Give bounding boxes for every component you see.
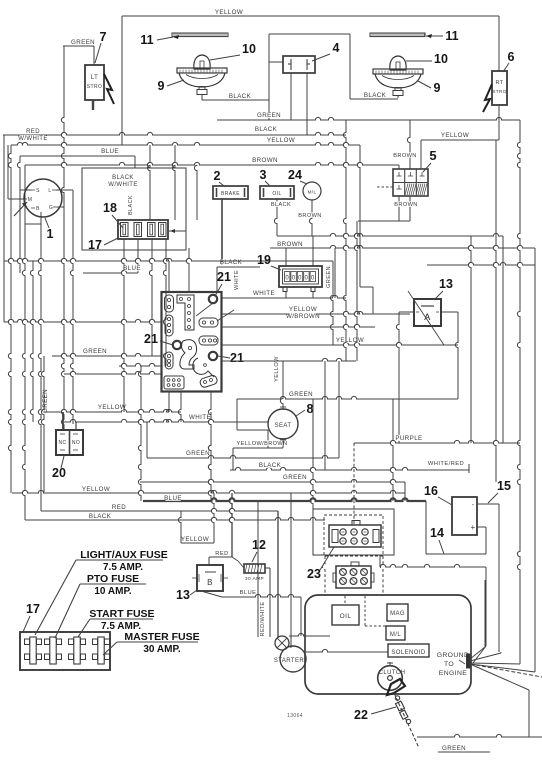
svg-text:GREEN: GREEN [442, 745, 466, 752]
wire [277, 233, 503, 443]
wire [258, 501, 266, 637]
starter solenoid [275, 636, 289, 650]
svg-text:11: 11 [445, 29, 458, 43]
wire [41, 356, 49, 492]
label pto fuse [55, 573, 146, 638]
wire black lower bus [25, 513, 325, 520]
wire [147, 145, 150, 220]
svg-text:11: 11 [140, 33, 153, 47]
svg-text:RED: RED [112, 504, 126, 511]
svg-text:0: 0 [311, 276, 315, 282]
wire brown mid [358, 220, 410, 222]
svg-text:BROWN: BROWN [394, 202, 417, 208]
wire green bottom [417, 734, 542, 752]
svg-text:OIL: OIL [340, 613, 352, 620]
label 21 top [215, 270, 231, 296]
connector 23 upper [329, 521, 381, 548]
svg-text:BROWN: BROWN [393, 153, 416, 159]
wire purple [354, 435, 520, 443]
ml lamp 24 [303, 182, 321, 200]
wire [268, 34, 270, 120]
svg-text:13: 13 [176, 588, 190, 602]
svg-text:15: 15 [497, 479, 511, 493]
wire [360, 287, 373, 314]
label 15 [488, 479, 511, 503]
wire [343, 120, 346, 361]
svg-text:GREEN: GREEN [257, 112, 281, 119]
label 4 [312, 41, 340, 61]
svg-text:30 AMP.: 30 AMP. [143, 644, 180, 655]
svg-text:BLUE: BLUE [123, 265, 141, 272]
svg-text:21: 21 [217, 270, 231, 284]
wire black mid [230, 361, 469, 470]
svg-text:YELLOW: YELLOW [441, 132, 469, 139]
wire white bus [222, 290, 346, 298]
svg-text:BLUE: BLUE [240, 590, 257, 596]
label light aux fuse [35, 549, 168, 635]
wire yellow-wbrown bus [222, 306, 410, 320]
svg-text:TO: TO [444, 661, 454, 668]
svg-text:18: 18 [103, 201, 117, 215]
svg-text:0: 0 [305, 276, 309, 282]
wire ground fan [470, 580, 542, 677]
wire [234, 270, 240, 290]
wire [233, 440, 288, 448]
svg-text:RED: RED [26, 129, 40, 135]
svg-text:YELLOW: YELLOW [336, 337, 364, 344]
svg-text:BLACK: BLACK [89, 513, 112, 520]
svg-text:3: 3 [260, 168, 267, 182]
wire [498, 16, 500, 71]
svg-text:2: 2 [214, 169, 221, 183]
wire leader diag [196, 303, 234, 321]
svg-text:STARTER: STARTER [274, 658, 305, 664]
relay 13 A [414, 299, 441, 326]
label 14 [430, 526, 444, 554]
svg-text:SOLENOID: SOLENOID [391, 650, 425, 656]
wire [220, 199, 243, 266]
wire [500, 652, 502, 653]
wire dashed lamp ground [397, 96, 399, 99]
svg-text:9: 9 [434, 81, 441, 95]
wire [394, 196, 417, 221]
svg-text:YELLOW: YELLOW [98, 404, 126, 411]
label 20 [52, 456, 66, 480]
wire green bus [217, 112, 520, 120]
label 1 [45, 218, 54, 241]
fuse block 17 [20, 632, 110, 670]
wire [201, 591, 222, 597]
svg-text:BLACK: BLACK [128, 195, 134, 215]
wire brown bus [25, 157, 399, 165]
svg-text:6: 6 [508, 50, 515, 64]
wire [222, 358, 356, 361]
svg-text:CLUTCH: CLUTCH [379, 670, 406, 676]
label 6 [503, 50, 515, 72]
wire [420, 140, 422, 169]
svg-text:YELLOW/BROWN: YELLOW/BROWN [236, 441, 287, 447]
label 16 [424, 484, 452, 505]
wire blue left [83, 265, 141, 273]
svg-text:0: 0 [298, 276, 302, 282]
svg-text:23: 23 [307, 567, 321, 581]
wire dashed stub [377, 186, 393, 188]
wire [70, 190, 73, 424]
label 13064 [287, 713, 303, 719]
wire [3, 135, 5, 322]
label 21 right [218, 351, 244, 365]
connector 23 outer [313, 509, 394, 556]
wire [25, 223, 41, 225]
wire [470, 248, 535, 737]
wire diag [408, 291, 444, 345]
label master fuse [103, 631, 200, 655]
wire white left [64, 414, 269, 422]
connector 23 lower [333, 562, 374, 588]
svg-text:GREEN: GREEN [326, 266, 332, 288]
svg-text:0: 0 [292, 276, 296, 282]
label 5 [423, 148, 437, 172]
svg-text:BLACK: BLACK [229, 93, 252, 100]
svg-text:W/WHITE: W/WHITE [18, 136, 47, 142]
wire [404, 482, 406, 501]
svg-text:GREEN: GREEN [42, 389, 49, 413]
wire yellow top bus [122, 9, 499, 16]
wire black to module [217, 267, 260, 292]
wire [390, 399, 393, 501]
wire [194, 165, 197, 220]
svg-text:YELLOW: YELLOW [82, 486, 110, 493]
strobe LT 7 [85, 65, 114, 110]
ignition switch 1 [14, 179, 62, 217]
wire [168, 229, 186, 250]
wire [265, 568, 270, 637]
svg-text:ENGINE: ENGINE [439, 670, 468, 677]
label 7 [95, 30, 107, 63]
svg-text:-: - [472, 502, 475, 509]
wire [121, 16, 123, 145]
wire [493, 140, 496, 482]
svg-text:10 AMP.: 10 AMP. [94, 586, 131, 597]
wire dashed [345, 596, 386, 626]
svg-text:BLACK: BLACK [255, 126, 278, 133]
wire green seat [237, 391, 458, 448]
svg-text:RED: RED [215, 551, 228, 557]
svg-text:B: B [36, 206, 40, 212]
wire [286, 236, 313, 266]
connector housing box [82, 168, 186, 250]
fuse 12 [244, 564, 265, 582]
wire [135, 239, 138, 273]
svg-text:BROWN: BROWN [252, 157, 278, 164]
wire [22, 165, 25, 520]
hour meter 19 [279, 266, 322, 292]
svg-text:1: 1 [47, 227, 54, 241]
wire [300, 597, 302, 636]
wire [57, 206, 64, 208]
svg-text:12: 12 [252, 538, 266, 552]
strobe RT 6 [483, 71, 507, 112]
svg-text:WHITE/RED: WHITE/RED [428, 461, 464, 467]
wire blue lower bus [143, 495, 426, 502]
wire [8, 145, 24, 199]
svg-text:SEAT: SEAT [275, 423, 292, 429]
svg-text:10: 10 [434, 52, 448, 66]
svg-text:BLACK: BLACK [220, 259, 243, 266]
wire [63, 412, 76, 430]
wire [298, 200, 321, 236]
wire [149, 239, 152, 356]
svg-text:RT: RT [495, 80, 503, 86]
wire yellow mid [222, 337, 458, 345]
wire [269, 61, 283, 63]
label 9 left [158, 79, 184, 93]
label 13 lower [176, 588, 197, 602]
wire [306, 649, 388, 652]
svg-text:16: 16 [424, 484, 438, 498]
svg-text:STRO: STRO [492, 89, 506, 94]
connector 17 18 [118, 220, 168, 239]
wire red lower bus [41, 504, 278, 638]
wire [178, 493, 214, 543]
lamp bar 11 right [370, 33, 425, 37]
svg-text:YELLOW: YELLOW [181, 536, 209, 543]
wire [289, 633, 330, 636]
label 19 [257, 253, 281, 270]
label 12 [252, 538, 266, 562]
svg-text:LIGHT/AUX FUSE: LIGHT/AUX FUSE [80, 549, 168, 561]
label 21 left [144, 332, 173, 346]
engine oil switch [332, 605, 359, 625]
svg-text:BLUE: BLUE [164, 495, 182, 502]
wire yellow right [421, 105, 499, 140]
svg-text:4: 4 [333, 41, 340, 55]
svg-text:BLUE: BLUE [101, 148, 119, 155]
svg-text:20: 20 [52, 466, 66, 480]
wire black / red-w-white bus [3, 126, 346, 142]
svg-text:BLACK: BLACK [364, 92, 387, 99]
svg-text:30 AMP: 30 AMP [245, 576, 264, 582]
wire [354, 221, 357, 361]
label 18 [103, 201, 123, 228]
wire brown lower [270, 241, 535, 248]
wire [274, 356, 283, 409]
wire long bus [4, 258, 333, 261]
label 10 left [210, 42, 256, 60]
wire dashed [322, 556, 383, 596]
svg-text:NC: NC [58, 440, 66, 446]
wire [17, 156, 20, 273]
brake switch 2 [213, 186, 248, 199]
wire left long [4, 319, 161, 322]
svg-text:7: 7 [100, 30, 107, 44]
headlight 9 left shell [0, 0, 1, 1]
svg-text:MASTER FUSE: MASTER FUSE [124, 631, 199, 643]
svg-text:YELLOW: YELLOW [215, 9, 243, 16]
svg-text:M/L: M/L [308, 190, 317, 195]
svg-text:WHITE: WHITE [253, 290, 275, 297]
control module [162, 292, 222, 392]
wire [271, 199, 291, 236]
wire [477, 504, 499, 652]
label 11 left [140, 33, 179, 47]
label 17 [88, 238, 118, 252]
svg-text:W/BROWN: W/BROWN [286, 313, 320, 320]
svg-text:+: + [470, 523, 475, 532]
wire [222, 324, 375, 327]
svg-text:PURPLE: PURPLE [395, 435, 422, 442]
svg-text:13: 13 [439, 277, 453, 291]
wire [330, 261, 333, 345]
wire [20, 189, 73, 191]
svg-text:BRAKE: BRAKE [221, 191, 240, 197]
label 8 [296, 402, 314, 416]
svg-text:BLACK: BLACK [112, 175, 134, 181]
lamp bar 11 left [172, 33, 228, 37]
wire [306, 73, 308, 135]
wire black left lamp [202, 93, 269, 100]
label 17 lower [23, 602, 40, 632]
label 24 [288, 168, 307, 184]
wire [380, 555, 486, 567]
wire [119, 363, 161, 366]
svg-text:W/WHITE: W/WHITE [108, 182, 137, 188]
svg-text:YELLOW: YELLOW [274, 356, 280, 382]
headlight 9 right shell [0, 0, 1, 1]
svg-text:YELLOW: YELLOW [267, 137, 295, 144]
svg-text:GREEN: GREEN [71, 39, 95, 46]
wire [138, 366, 141, 501]
wire [208, 412, 211, 501]
svg-text:YELLOW: YELLOW [289, 306, 317, 313]
wire [121, 239, 124, 412]
svg-text:OIL: OIL [272, 191, 281, 197]
svg-text:LT: LT [91, 75, 98, 81]
svg-text:S: S [36, 188, 40, 194]
wire [38, 212, 41, 511]
wire [393, 120, 416, 169]
svg-text:21: 21 [144, 332, 158, 346]
label 11 right [426, 29, 459, 43]
wire [398, 165, 400, 169]
svg-text:GREEN: GREEN [186, 450, 210, 457]
wire relay to right lamp [269, 34, 398, 99]
wire [396, 312, 414, 443]
key 22 [394, 693, 419, 748]
wire green to LT strobe [63, 39, 95, 65]
svg-text:WHITE: WHITE [234, 270, 240, 290]
headlight bulb 10 right [373, 56, 423, 96]
svg-text:BROWN: BROWN [298, 213, 321, 219]
wire [64, 371, 161, 374]
nc no switch 20 [56, 430, 83, 455]
wire [353, 443, 355, 525]
svg-text:BLACK: BLACK [259, 462, 282, 469]
wire [172, 145, 175, 220]
svg-text:PTO FUSE: PTO FUSE [87, 573, 139, 585]
wire [517, 120, 520, 664]
svg-text:5: 5 [429, 148, 436, 163]
wire [30, 261, 33, 422]
svg-text:9: 9 [158, 79, 165, 93]
svg-text:NO: NO [72, 440, 80, 446]
svg-text:GREEN: GREEN [289, 391, 313, 398]
oil switch 3 [260, 186, 294, 199]
svg-text:21: 21 [230, 351, 244, 365]
wire [473, 567, 486, 663]
label 3 [260, 168, 270, 186]
wire 14 loop [426, 501, 486, 554]
relay 4 [283, 56, 315, 73]
svg-text:B: B [207, 578, 213, 587]
svg-text:7.5 AMP.: 7.5 AMP. [103, 562, 143, 573]
svg-text:19: 19 [257, 253, 271, 267]
svg-text:17: 17 [88, 238, 102, 252]
svg-text:10: 10 [242, 42, 256, 56]
label 13 [434, 277, 453, 300]
wire [169, 392, 211, 494]
starter motor [274, 646, 306, 672]
svg-text:0: 0 [285, 276, 289, 282]
label 22 [354, 707, 396, 722]
wire [326, 248, 335, 298]
label 2 [214, 169, 224, 186]
wire [8, 145, 11, 493]
svg-text:L: L [48, 188, 51, 194]
svg-text:24: 24 [288, 168, 302, 182]
wire [209, 493, 232, 565]
headlight bulb 10 left [177, 55, 227, 95]
wire yellow lower bus [12, 399, 405, 648]
wire yellow bus [11, 137, 360, 287]
wire [169, 248, 189, 292]
svg-text:8: 8 [307, 402, 314, 416]
wire green left [52, 348, 161, 356]
connector 5 [393, 169, 428, 196]
wire blue bus [20, 148, 135, 168]
wire [232, 557, 244, 568]
label 10 right [406, 52, 448, 66]
engine solenoid [388, 644, 429, 657]
seat switch 8 [268, 406, 298, 442]
label start fuse [78, 608, 155, 637]
svg-text:22: 22 [354, 708, 368, 722]
svg-text:RED/WHITE: RED/WHITE [260, 602, 266, 637]
engine mag [387, 604, 408, 621]
svg-text:STRO: STRO [87, 84, 103, 90]
svg-text:GROUND: GROUND [437, 652, 470, 659]
wire white-red [428, 460, 469, 473]
clutch [378, 662, 406, 695]
battery 16 [452, 497, 477, 535]
svg-text:14: 14 [430, 526, 444, 540]
engine ml [386, 626, 405, 640]
svg-text:MAG: MAG [390, 611, 405, 617]
svg-text:M: M [28, 197, 33, 203]
svg-text:G: G [49, 205, 53, 211]
wire [163, 239, 166, 366]
engine outline [305, 595, 471, 694]
wire [427, 262, 535, 265]
label 9 right [418, 81, 441, 95]
svg-text:START FUSE: START FUSE [89, 608, 154, 620]
svg-text:GREEN: GREEN [83, 348, 107, 355]
wire [61, 46, 64, 429]
svg-text:WHITE: WHITE [189, 414, 211, 421]
wire green lower bus [140, 474, 405, 482]
ground to engine [437, 651, 470, 677]
svg-text:BLACK: BLACK [271, 202, 291, 208]
